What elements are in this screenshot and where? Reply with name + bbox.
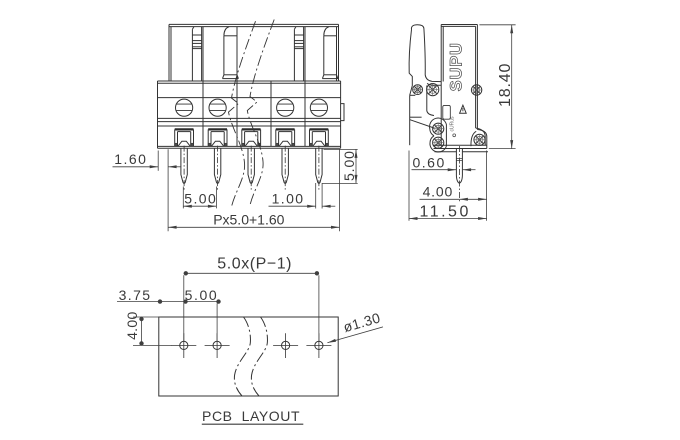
front view: break line right xyxy=(247,20,274,205)
front view: dimension 5.00 pitch xyxy=(183,187,217,209)
svg-text:5.0x(P−1): 5.0x(P−1) xyxy=(217,256,292,273)
side view: solder pin xyxy=(456,146,462,201)
side view: rivet screw 3 xyxy=(471,85,481,95)
pcb layout: dimension 5.0x(P-1) xyxy=(184,256,319,341)
front view: window element 2 xyxy=(322,27,338,79)
front view: clamp cage 2 xyxy=(208,129,227,146)
side view: inner contour below arm xyxy=(410,86,434,129)
front view: cell divider 4 xyxy=(304,27,306,147)
side view: rivet screw 1 xyxy=(413,85,423,95)
front view: clamp cage 4 xyxy=(276,129,295,146)
side view: marking window xyxy=(443,105,451,119)
svg-text:Px5.0+1.60: Px5.0+1.60 xyxy=(213,212,284,228)
pcb layout: hole 2 xyxy=(205,333,230,358)
svg-text:18.40: 18.40 xyxy=(497,63,514,107)
front view: window element 1 xyxy=(223,27,239,79)
front view: cell divider 2 xyxy=(236,27,238,147)
side view: SUPU logo xyxy=(448,42,466,91)
front view: plug housing upper outline xyxy=(169,24,339,81)
side view: rivet screw 2 xyxy=(427,84,439,96)
front view: solder pin 5 xyxy=(316,146,322,190)
pcb layout: hole 3 xyxy=(273,333,298,358)
svg-text:3.75: 3.75 xyxy=(119,287,152,303)
side view: dimension 4.00 xyxy=(420,151,487,221)
front view: hatched rib 1 xyxy=(192,27,201,81)
front view: clamp cage 5 xyxy=(310,129,329,146)
svg-text:5.00: 5.00 xyxy=(341,150,357,181)
front view: screw 1 xyxy=(176,99,193,116)
side view: right screw boss xyxy=(471,131,476,146)
side view: rivet screw 5 xyxy=(433,137,444,148)
pcb layout: break line left xyxy=(234,317,250,396)
svg-text:SUPU: SUPU xyxy=(448,42,466,91)
side view: rivet screw 6 xyxy=(474,134,485,145)
pcb layout: dimension 4.00 xyxy=(124,311,172,345)
side view: dimension 11.50 xyxy=(409,151,487,221)
side view: rivet screw 4 xyxy=(433,123,444,134)
front view: base outline xyxy=(158,81,341,148)
front view: screw 2 xyxy=(209,99,226,116)
front view: solder pin 3 xyxy=(248,146,254,190)
front view: clamp cage 3 xyxy=(242,129,261,146)
side view: latch release arm xyxy=(409,25,441,145)
front view: dimension 1.60 xyxy=(113,151,182,171)
pcb layout: board outline xyxy=(159,317,338,396)
front view: dimension Px5.0+1.60 xyxy=(168,149,339,231)
svg-text:4.00: 4.00 xyxy=(124,311,140,339)
svg-text:0.60: 0.60 xyxy=(413,154,446,170)
pcb layout: hole 4 xyxy=(306,333,331,358)
side view: warning triangle xyxy=(460,105,467,113)
svg-text:cURus: cURus xyxy=(450,116,456,132)
side view: dimension 0.60 xyxy=(412,154,476,171)
pcb layout: hole 1 xyxy=(171,333,196,358)
front view: screw 4 xyxy=(277,99,294,116)
svg-text:5.00: 5.00 xyxy=(184,190,217,206)
svg-text:4.00: 4.00 xyxy=(423,184,453,200)
svg-text:11.50: 11.50 xyxy=(420,203,471,220)
pcb layout: break line right xyxy=(251,317,267,396)
front view: right side notch xyxy=(341,104,344,121)
side view: lower screw bosses xyxy=(430,118,447,152)
svg-text:1.00: 1.00 xyxy=(272,190,305,206)
side view: certification marks xyxy=(450,116,456,137)
front view: dimension 1.00 pin width xyxy=(269,190,336,207)
front view: screw 5 xyxy=(310,99,327,116)
front view: solder pin 1 xyxy=(181,146,187,190)
svg-text:PCB LAYOUT: PCB LAYOUT xyxy=(202,408,300,424)
front view: pin 5 side extension lines xyxy=(316,183,322,209)
svg-text:5.00: 5.00 xyxy=(185,287,219,303)
front view: break line left xyxy=(229,21,256,205)
svg-text:1.60: 1.60 xyxy=(114,151,147,167)
front view: extension line for Px dimension left xyxy=(167,149,169,231)
side view: main body slab xyxy=(434,25,489,152)
front view: solder pin 2 xyxy=(214,146,220,190)
pcb layout: dimension diameter 1.30 xyxy=(327,309,383,342)
front view: dimension 5.00 pin length xyxy=(323,149,358,183)
front view: clamp cage 1 xyxy=(175,129,194,146)
front view: cell divider 3 xyxy=(270,81,272,146)
front view: solder pin 4 xyxy=(282,146,288,190)
side view: dimension 18.40 xyxy=(479,25,515,149)
front view: base horizontal feature lines xyxy=(158,98,341,126)
front view: hatched rib 2 xyxy=(294,27,303,81)
pcb layout: dimensions 3.75 and 5.00 xyxy=(117,287,221,341)
pcb layout: title PCB LAYOUT xyxy=(202,408,303,424)
front view: cell divider 1 xyxy=(202,27,204,147)
